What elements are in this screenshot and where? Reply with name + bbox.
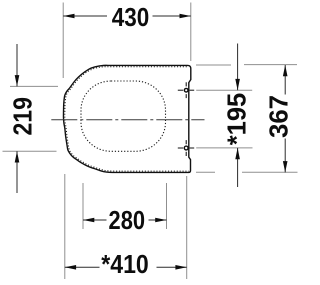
dimension 280 bottom xyxy=(83,183,167,235)
node: arrow right xyxy=(180,14,191,19)
wire: dimension line xyxy=(16,44,18,86)
node: arrow down xyxy=(235,79,240,90)
node: arrow down xyxy=(15,75,20,86)
wire: extension line right xyxy=(166,183,168,229)
svg-text:*410: *410 xyxy=(101,249,149,279)
wire: extension line right xyxy=(186,176,188,279)
wire: hinge top centerline extension xyxy=(196,89,252,91)
svg-text:*195: *195 xyxy=(221,93,251,146)
wire: hinge bottom centerline extension xyxy=(196,147,252,149)
svg-text:219: 219 xyxy=(8,97,38,136)
wire: dimension line xyxy=(284,65,286,95)
node: arrow left xyxy=(63,14,74,19)
node: hinge hole bottom xyxy=(178,140,194,156)
svg-text:367: 367 xyxy=(263,95,293,138)
wire: extension line left xyxy=(64,174,66,279)
wire: extension line top xyxy=(196,64,231,66)
wire: seat outer outline xyxy=(63,65,190,172)
node: arrow right xyxy=(155,218,166,223)
wire: extension line left xyxy=(62,3,64,79)
dimension *410 bottom xyxy=(65,174,187,279)
wire: extension line left xyxy=(82,183,84,229)
node: arrow left xyxy=(65,265,76,270)
node: arrow down xyxy=(283,161,288,172)
wire: dotted hug line inside outline xyxy=(65,67,189,171)
wire: dimension line xyxy=(83,219,107,221)
node: arrow up xyxy=(15,151,20,162)
node: hinge hole top xyxy=(178,82,194,98)
node: arrow up xyxy=(283,65,288,76)
dimension 367 right xyxy=(196,65,298,173)
wire: dimension line xyxy=(65,266,100,268)
svg-text:430: 430 xyxy=(112,2,150,32)
node: arrow right xyxy=(175,265,186,270)
wire: horizontal centerline xyxy=(51,119,204,121)
wire: extension line bottom xyxy=(3,150,57,152)
dimension 219 left xyxy=(3,44,59,193)
dimension 430 top xyxy=(63,2,191,78)
svg-text:280: 280 xyxy=(109,205,146,235)
wire: seat opening dotted xyxy=(81,81,166,151)
wire: dimension line xyxy=(63,15,107,17)
wire: extension line bottom xyxy=(196,171,215,173)
node: arrow up xyxy=(235,148,240,159)
wire: extension line right xyxy=(190,3,192,62)
wire: extension line top xyxy=(10,85,58,87)
wire: dimension line xyxy=(237,44,239,91)
dimension *195 hinge spacing xyxy=(221,44,251,188)
node: arrow left xyxy=(83,218,94,223)
